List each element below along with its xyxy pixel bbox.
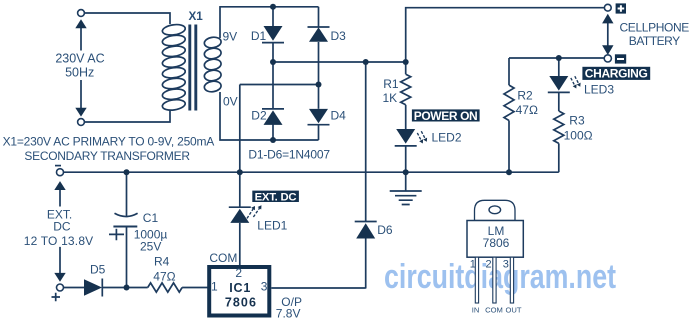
svg-text:circuitdiagram.net: circuitdiagram.net [384, 258, 616, 296]
svg-text:1K: 1K [383, 91, 398, 105]
svg-text:25V: 25V [140, 239, 161, 253]
svg-text:R4: R4 [154, 254, 170, 268]
svg-text:D5: D5 [90, 263, 106, 277]
svg-text:DC: DC [53, 220, 71, 234]
svg-text:100Ω: 100Ω [564, 129, 593, 143]
svg-text:IC1: IC1 [229, 281, 250, 295]
svg-text:IN: IN [472, 305, 480, 314]
svg-text:CHARGING: CHARGING [585, 67, 648, 81]
svg-text:R3: R3 [569, 113, 585, 127]
svg-text:2: 2 [486, 258, 492, 270]
svg-text:X1=230V AC PRIMARY TO 0-9V, 25: X1=230V AC PRIMARY TO 0-9V, 250mA [3, 134, 215, 148]
svg-text:1: 1 [470, 258, 476, 270]
svg-text:LED3: LED3 [584, 82, 614, 96]
svg-text:47Ω: 47Ω [153, 269, 175, 283]
svg-text:1: 1 [211, 280, 218, 294]
svg-text:9V: 9V [223, 29, 238, 43]
svg-text:3: 3 [503, 258, 509, 270]
svg-text:50Hz: 50Hz [65, 65, 94, 79]
svg-text:COM: COM [209, 251, 237, 265]
svg-text:D6: D6 [377, 223, 393, 237]
svg-text:C1: C1 [143, 211, 159, 225]
svg-text:X1: X1 [189, 10, 204, 23]
svg-text:R1: R1 [383, 77, 399, 91]
svg-text:POWER ON: POWER ON [414, 109, 478, 123]
svg-text:CELLPHONE: CELLPHONE [620, 21, 690, 35]
svg-text:LED1: LED1 [257, 218, 287, 232]
svg-text:7.8V: 7.8V [276, 306, 301, 320]
svg-text:D1-D6=1N4007: D1-D6=1N4007 [248, 147, 330, 161]
svg-text:12 TO 13.8V: 12 TO 13.8V [24, 234, 94, 248]
svg-text:EXT. DC: EXT. DC [255, 192, 297, 204]
svg-text:SECONDARY TRANSFORMER: SECONDARY TRANSFORMER [24, 149, 190, 163]
svg-text:D1: D1 [251, 29, 267, 43]
svg-text:D4: D4 [331, 108, 347, 122]
svg-text:LED2: LED2 [432, 131, 462, 145]
svg-text:2: 2 [235, 266, 242, 280]
svg-text:47Ω: 47Ω [516, 103, 538, 117]
svg-text:D3: D3 [331, 29, 347, 43]
svg-text:7806: 7806 [225, 295, 256, 309]
svg-text:R2: R2 [517, 89, 533, 103]
svg-text:0V: 0V [223, 94, 238, 108]
svg-text:COM: COM [485, 305, 503, 314]
svg-text:230V AC: 230V AC [55, 52, 104, 66]
svg-text:OUT: OUT [505, 305, 521, 314]
svg-text:3: 3 [261, 280, 268, 294]
svg-text:7806: 7806 [483, 236, 510, 250]
svg-text:D2: D2 [251, 108, 267, 122]
svg-text:BATTERY: BATTERY [629, 34, 680, 48]
